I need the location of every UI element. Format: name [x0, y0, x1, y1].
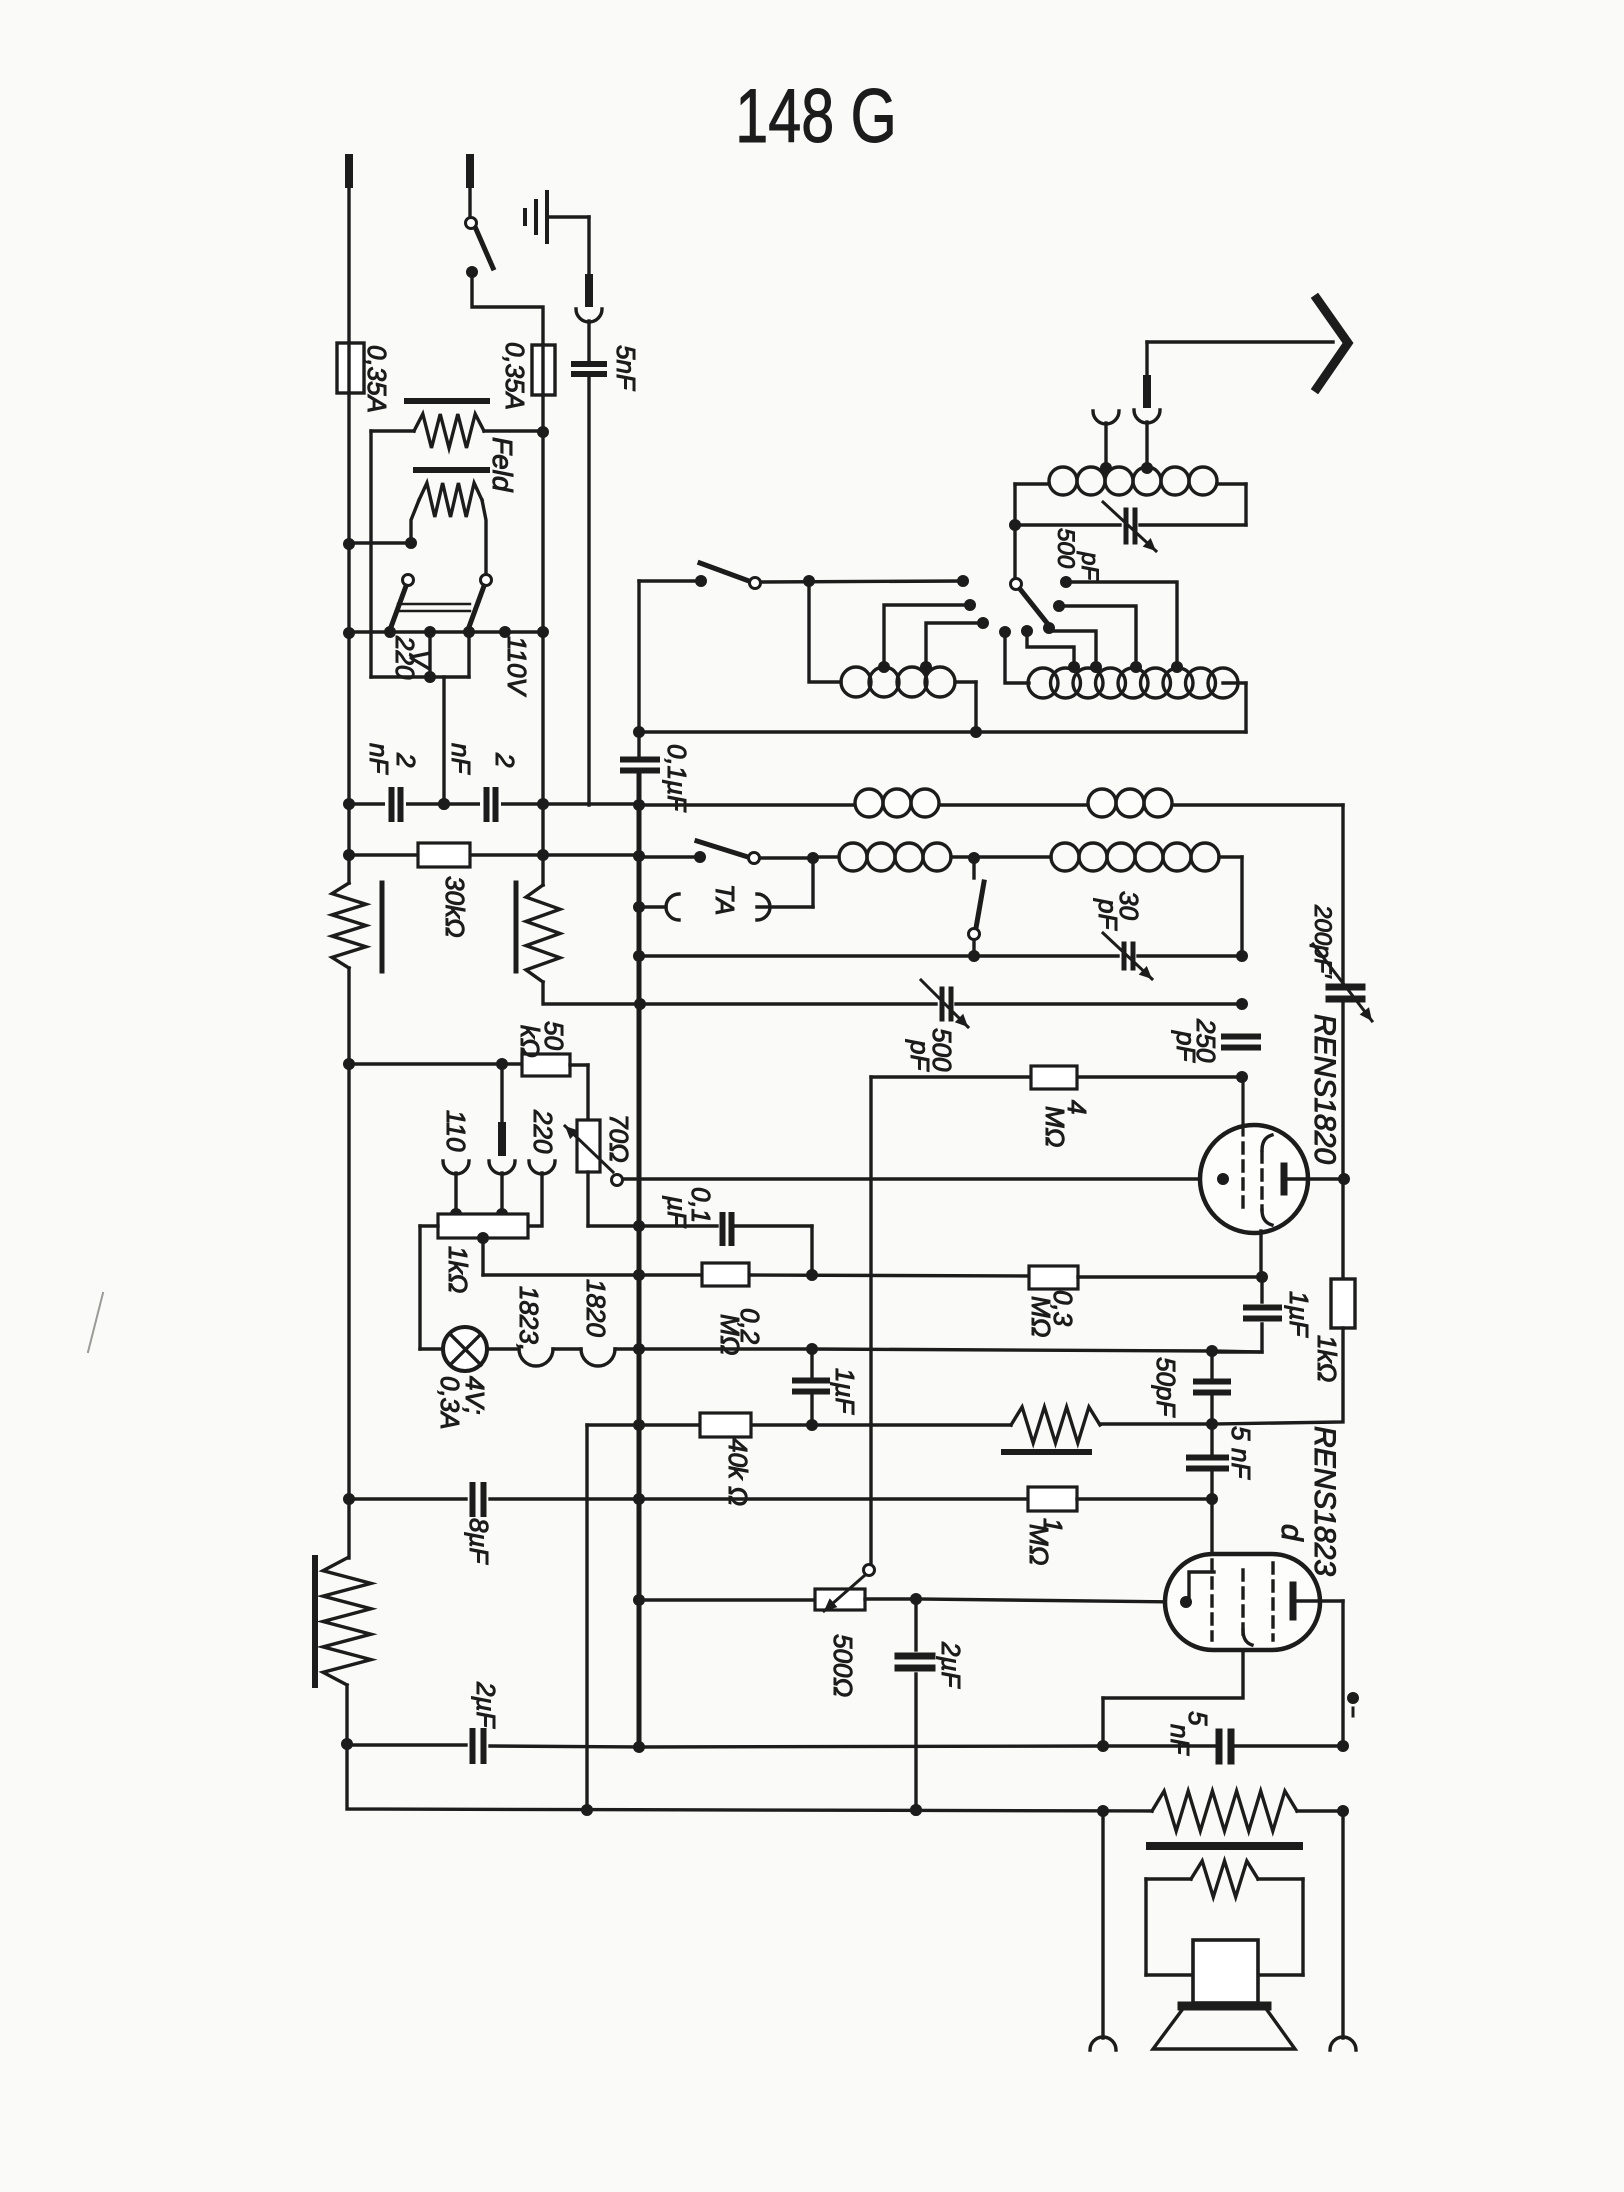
wire supply row y1499 — [343, 1493, 466, 1505]
switch TA (S4) — [639, 841, 819, 864]
svg-text:V: V — [404, 650, 434, 670]
wire right column between rails — [541, 805, 544, 885]
wire cathode row y1179 — [623, 1177, 1221, 1180]
label 5nF grid — [1226, 1426, 1256, 1480]
label RENS1823 d — [1275, 1426, 1341, 1576]
capacitor 500pF tuning — [921, 980, 968, 1027]
capacitor 8uF — [473, 1485, 1029, 1514]
resistor divider left (with tap bar) — [332, 883, 382, 1070]
capacitor 2nF #1 — [385, 790, 406, 819]
capacitor 0,1uF grid — [723, 1215, 813, 1275]
capacitor 200pF trimmer — [1313, 944, 1372, 1021]
node 220V tap — [424, 632, 436, 683]
antenna jack 2 — [1093, 411, 1119, 467]
svg-text:500Ω: 500Ω — [828, 1634, 858, 1697]
label 5nF — [611, 345, 641, 392]
socket mid with plug — [489, 1064, 515, 1220]
wire S2 drop — [809, 581, 841, 682]
wire heater row — [487, 1347, 519, 1350]
svg-text:0,35A: 0,35A — [362, 345, 392, 413]
jack TA — [633, 858, 813, 920]
fuse 0,35A left — [337, 343, 364, 393]
label 5nF output — [1165, 1711, 1213, 1756]
svg-text:TA: TA — [710, 884, 740, 915]
label 30kOhm — [440, 876, 470, 938]
wire rail C y956 — [633, 950, 1248, 962]
lamp 4V 0,3A — [443, 1327, 487, 1371]
capacitor 30pF trimmer — [1103, 933, 1152, 979]
resistor 1kOhm anode — [1212, 1279, 1355, 1424]
svg-text:nF: nF — [446, 743, 476, 775]
node L2 tap 2 — [920, 617, 989, 673]
label 0,3 MOhm — [1026, 1290, 1078, 1337]
svg-text:220: 220 — [528, 1109, 558, 1154]
svg-text:d: d — [1275, 1524, 1308, 1542]
svg-text:1820: 1820 — [581, 1279, 611, 1337]
svg-text:pF: pF — [1171, 1030, 1201, 1063]
wire AVC column x871 — [869, 1077, 872, 1566]
resistor 0,2MOhm — [702, 1263, 749, 1286]
svg-text:µF: µF — [662, 1195, 692, 1229]
svg-text:nF: nF — [1226, 1448, 1256, 1480]
voltage selector switch 220/110 — [391, 575, 492, 628]
svg-text:0,1µF: 0,1µF — [662, 744, 692, 813]
svg-text:50pF: 50pF — [1151, 1357, 1181, 1418]
capacitor 0,1uF (bus) — [623, 760, 657, 771]
capacitor 2uF (center) — [898, 1599, 932, 1816]
label 50pF — [1151, 1357, 1181, 1418]
resistor 4MOhm — [1031, 1066, 1077, 1089]
wire grid rail y1077 — [871, 1071, 1248, 1083]
label 2nF #1 — [364, 743, 421, 775]
wire tube1823 grid top — [1210, 1499, 1213, 1556]
potentiometer 500 Ohm — [633, 1565, 875, 1612]
svg-text:5: 5 — [1226, 1426, 1256, 1441]
antenna jack — [1134, 342, 1160, 467]
wire band contact c — [999, 626, 1029, 683]
svg-text:pF: pF — [1093, 898, 1123, 931]
wire selector to rail — [438, 677, 450, 810]
label 50 kOhm — [515, 1021, 569, 1058]
label 30 pF — [1093, 891, 1144, 931]
label 1kOhm heater — [443, 1246, 473, 1293]
wire HT return row y1746 — [639, 1746, 1214, 1747]
wire mains right down — [541, 395, 544, 805]
tube RENS1820 U1 — [1200, 1077, 1350, 1233]
label 0,2 MOhm — [715, 1308, 765, 1355]
svg-text:70Ω: 70Ω — [604, 1114, 634, 1163]
svg-text:pF: pF — [1076, 551, 1103, 581]
coil L3 (oscillator) — [1028, 668, 1246, 732]
label 500 pF tuning — [905, 1028, 957, 1072]
wire 50k row — [349, 1058, 522, 1070]
label 40 kOhm — [723, 1438, 753, 1506]
heater 1823 — [519, 1349, 581, 1366]
label 4 MOhm — [1040, 1100, 1092, 1147]
coil L1 (antenna) — [1015, 467, 1246, 495]
node stray — [1347, 1692, 1359, 1716]
ground — [525, 192, 589, 278]
label 1uF center — [830, 1368, 860, 1415]
label 0,1 uF grid — [662, 1187, 716, 1229]
label 1kOhm anode — [1312, 1335, 1342, 1382]
resistor 30kOhm — [418, 843, 470, 867]
label 4V 0,3A — [435, 1376, 490, 1430]
svg-text:MΩ: MΩ — [1026, 1296, 1056, 1337]
svg-text:1kΩ: 1kΩ — [1312, 1335, 1342, 1382]
wire Feld left branch — [369, 431, 372, 677]
socket 110 — [443, 1161, 469, 1220]
svg-text:2: 2 — [391, 752, 421, 768]
node L2 tap 1 — [878, 599, 976, 673]
power switch S1 — [466, 218, 544, 346]
label 2uF center — [936, 1641, 966, 1689]
mains pin left — [345, 158, 353, 344]
speaker core bar — [1150, 1842, 1299, 1850]
svg-text:1µF: 1µF — [1284, 1291, 1314, 1338]
resistor feedback zigzag — [1004, 1407, 1100, 1452]
label RENS1820 — [1308, 1014, 1341, 1164]
svg-text:MΩ: MΩ — [1024, 1524, 1054, 1565]
capacitor 2uF (left) — [347, 1731, 645, 1761]
wire grid coupling y1226 — [588, 1220, 717, 1232]
wire left main between rails — [347, 805, 350, 883]
switch S3 — [968, 858, 984, 962]
resistor bleeder (vertical with bar) — [315, 1064, 371, 1750]
svg-text:200pF′: 200pF′ — [1309, 904, 1336, 979]
capacitor 50pF — [1196, 1351, 1228, 1430]
capacitor 2nF #2 — [480, 790, 501, 819]
wire L1 shunt loop — [1009, 484, 1246, 531]
wire rail D y1004 — [543, 982, 1248, 1010]
inductor RF choke 1 — [854, 789, 940, 819]
mains pin right — [466, 158, 474, 217]
svg-text:2: 2 — [490, 752, 520, 768]
antenna — [1147, 299, 1348, 388]
svg-text:8µF: 8µF — [464, 1518, 494, 1565]
label 8uF — [464, 1518, 494, 1565]
svg-text:2µF: 2µF — [471, 1681, 501, 1729]
label 250 pF — [1171, 1018, 1221, 1063]
svg-text:40: 40 — [723, 1438, 753, 1467]
speaker cone — [1153, 2006, 1295, 2049]
speaker terminal left — [1090, 1811, 1116, 2050]
resistor 50kOhm — [522, 1054, 588, 1120]
svg-text:RENS1823: RENS1823 — [1308, 1426, 1341, 1576]
wire grid3 exit — [1097, 1650, 1243, 1752]
svg-text:500: 500 — [1052, 528, 1079, 569]
wire center bus upper — [637, 581, 640, 757]
socket 220 — [528, 1161, 555, 1226]
capacitor 1uF (center) — [795, 1349, 827, 1431]
svg-text:30kΩ: 30kΩ — [440, 876, 470, 938]
wire x587 column — [581, 1425, 593, 1816]
capacitor 250pF — [1224, 1037, 1258, 1048]
svg-text:1µF: 1µF — [830, 1368, 860, 1415]
svg-text:0,3A: 0,3A — [435, 1376, 465, 1430]
label 220 V — [390, 635, 434, 680]
coil L2 (oscillator pickup) — [841, 667, 976, 732]
resistor 1kOhm heater — [420, 1214, 528, 1244]
wire band contact e — [1053, 600, 1142, 673]
wire cathode 1823 row — [865, 1593, 1183, 1605]
label 500 Ohm — [828, 1634, 858, 1697]
wire band contact b — [1021, 625, 1080, 673]
svg-text:MΩ: MΩ — [715, 1314, 745, 1355]
wire feedback row y1424 — [587, 1419, 1212, 1431]
label 200pF — [1309, 904, 1336, 979]
svg-text:1823,: 1823, — [514, 1286, 544, 1351]
resistor Feld lower (field winding) — [411, 470, 487, 575]
wire bottom rail y1810 — [347, 1744, 1152, 1817]
antenna jack plug at ground lead — [576, 278, 602, 360]
wire right column to rail4 — [1240, 857, 1243, 956]
label 2nF #2 — [446, 743, 520, 775]
svg-text:110V: 110V — [502, 636, 532, 697]
svg-text:2µF: 2µF — [936, 1641, 966, 1689]
label 1820 — [581, 1279, 611, 1337]
coil L5 — [974, 843, 1242, 871]
capacitor 5nF output — [1219, 1732, 1343, 1761]
svg-text:kΩ: kΩ — [515, 1025, 545, 1058]
svg-text:1kΩ: 1kΩ — [443, 1246, 473, 1293]
inductor RF choke 2 — [1087, 789, 1173, 819]
wire rail B left — [343, 849, 645, 862]
svg-text:148 G: 148 G — [735, 74, 896, 159]
label 220 socket — [528, 1109, 558, 1154]
wire left main down — [343, 393, 355, 805]
wire rail A y805 — [438, 798, 1343, 811]
label 2uF left — [471, 1681, 501, 1729]
resistor 1MOhm — [1028, 1487, 1212, 1511]
wire center bus main (thick) — [637, 773, 642, 1747]
heater 1820 — [581, 1343, 645, 1366]
wire Feld tap — [349, 537, 417, 549]
label 0,35A right — [500, 342, 530, 410]
speaker magnet — [1193, 1940, 1258, 2003]
label TA — [710, 884, 740, 915]
node L1 taps — [1100, 462, 1153, 474]
transformer box — [1146, 1879, 1303, 1975]
label 500 pF antenna — [1052, 528, 1103, 581]
label 0,1uF bus — [662, 744, 692, 813]
wire selector row — [349, 626, 549, 638]
resistor Feld upper (field winding) — [371, 401, 549, 448]
svg-text:pF: pF — [905, 1039, 935, 1072]
wire rail A left — [343, 798, 639, 810]
label 1 MOhm — [1024, 1518, 1068, 1565]
capacitor 500pF antenna trimmer — [1103, 502, 1156, 551]
fuse 0,35A right — [532, 345, 555, 395]
label 1823 — [514, 1286, 544, 1351]
wire band contact d — [1060, 576, 1183, 673]
band switch pivot — [1011, 525, 1056, 634]
transformer secondary zigzag — [1146, 1861, 1303, 1897]
svg-text:110: 110 — [441, 1110, 471, 1152]
label 110 — [441, 1110, 471, 1152]
tube RENS1823 U2 — [1165, 1554, 1343, 1650]
label Feld — [487, 437, 518, 493]
svg-text:RENS1820: RENS1820 — [1308, 1014, 1341, 1164]
svg-text:nF: nF — [1165, 1724, 1195, 1756]
wire heater row right — [639, 1343, 1262, 1357]
switch S2 (wave change) — [639, 563, 969, 589]
wire return rail y732 — [633, 726, 1246, 738]
label 0,35A left — [362, 345, 392, 413]
wire anode 1823 down — [1337, 1601, 1349, 1752]
resistor 40kOhm — [700, 1413, 751, 1437]
svg-text:Feld: Feld — [487, 437, 518, 493]
label 1uF right — [1284, 1291, 1314, 1338]
wire tube bottom lead — [1259, 1231, 1262, 1277]
resistor 0,3MOhm — [1029, 1266, 1268, 1289]
coil L4 — [819, 843, 980, 871]
capacitor 5nF grid (vertical) — [1189, 1424, 1226, 1505]
svg-text:nF: nF — [364, 743, 394, 775]
resistor divider right (with tap bar) — [516, 883, 560, 982]
wire bias row y1275 — [483, 1238, 1029, 1281]
svg-text:MΩ: MΩ — [1040, 1106, 1070, 1147]
label 70 Ohm — [604, 1114, 634, 1163]
wire selector box — [371, 632, 469, 677]
wire anode column x1343 — [1341, 805, 1344, 1279]
resistor speaker field zigzag — [1152, 1791, 1349, 1831]
potentiometer 70 Ohm — [565, 1120, 623, 1226]
svg-text:0,35A: 0,35A — [500, 342, 530, 410]
label 110V — [502, 636, 532, 697]
wire band contact a — [1049, 628, 1102, 673]
wire lamp branch — [420, 1226, 443, 1349]
svg-text:5nF: 5nF — [611, 345, 641, 392]
speaker terminal right — [1330, 1811, 1356, 2050]
capacitor 1uF (right) — [1212, 1277, 1279, 1352]
capacitor 5nF (antenna coupling) — [574, 364, 604, 805]
